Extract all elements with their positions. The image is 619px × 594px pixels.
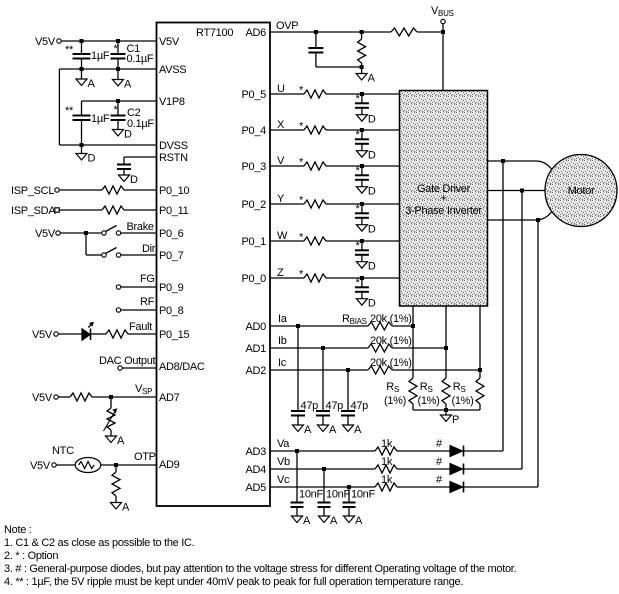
junction AD1 cap — [321, 346, 325, 350]
junction Va cap — [295, 449, 299, 453]
svg-text:**: ** — [65, 105, 74, 117]
svg-text:20k (1%): 20k (1%) — [370, 335, 412, 347]
svg-text:AD4: AD4 — [246, 464, 267, 476]
junction shunt column 3 — [478, 368, 482, 372]
svg-text:P0_3: P0_3 — [242, 161, 267, 173]
wire AD3 row — [270, 450, 375, 452]
wire NTC to pin AD9 — [101, 464, 156, 466]
svg-text:4. ** : 1µF, the 5V ripple mus: 4. ** : 1µF, the 5V ripple must be kept … — [4, 576, 463, 588]
ground D below snubber U — [356, 115, 367, 122]
svg-text:P0_2: P0_2 — [242, 199, 267, 211]
wire AD4 row — [270, 468, 375, 470]
junction OVP cap — [314, 30, 318, 34]
svg-text:P0_0: P0_0 — [242, 273, 267, 285]
svg-text:Ia: Ia — [278, 313, 288, 325]
wire Vc filter cap column — [348, 487, 350, 503]
terminal ISP_SDA — [55, 208, 59, 212]
wire resistor to gate driver (V) — [326, 165, 400, 167]
wire phase output 2 — [488, 190, 546, 192]
svg-text:P0_7: P0_7 — [159, 250, 184, 262]
ground D below snubber Z — [356, 299, 367, 306]
svg-text:Ib: Ib — [278, 335, 287, 347]
wire gate driver to shunt column 1 — [412, 306, 414, 378]
svg-text:A: A — [122, 502, 130, 514]
svg-text:D: D — [124, 129, 132, 141]
svg-text:10nF: 10nF — [326, 489, 350, 501]
resistor RS (1%) #3 — [476, 378, 484, 404]
wire phase output 3 — [488, 212, 552, 220]
svg-text:RS: RS — [386, 381, 399, 394]
junction snubber cap Y — [360, 202, 364, 206]
wire to shunt column 2 — [392, 347, 446, 349]
svg-text:10nF: 10nF — [299, 489, 323, 501]
junction AVSS bus left — [80, 67, 84, 71]
wire LED to resistor — [91, 333, 107, 335]
wire AD0 filter cap column — [297, 326, 299, 411]
svg-text:A: A — [355, 515, 363, 527]
wire to pin P0_7 — [121, 254, 156, 256]
svg-text:AD9: AD9 — [159, 459, 180, 471]
wire resistor to diode Va — [397, 450, 450, 452]
svg-text:P0_11: P0_11 — [159, 205, 189, 217]
svg-text:OVP: OVP — [276, 20, 298, 32]
svg-text:V5V: V5V — [35, 36, 56, 48]
svg-text:AD5: AD5 — [246, 482, 267, 494]
wire ISP_SCL — [59, 189, 102, 191]
junction VSP — [109, 395, 113, 399]
wire ISP_SDA — [59, 209, 102, 211]
terminal V5V (top) — [57, 39, 61, 43]
svg-text:A: A — [88, 78, 96, 90]
svg-text:D: D — [368, 224, 376, 236]
svg-text:A: A — [117, 435, 125, 447]
svg-text:3. # : General-purpose diodes,: 3. # : General-purpose diodes, but pay a… — [4, 563, 517, 575]
wire gate driver to shunt column 3 — [479, 306, 481, 378]
svg-text:P0_8: P0_8 — [159, 305, 184, 317]
junction shunt bus — [444, 408, 448, 412]
wire resistor to gate driver (X) — [326, 129, 400, 131]
junction on V5V rail at C1 — [116, 39, 120, 43]
svg-text:P0_9: P0_9 — [159, 282, 184, 294]
wire AD1 filter cap column — [322, 348, 324, 411]
svg-text:DVSS: DVSS — [159, 140, 188, 152]
svg-text:ISP_SCL: ISP_SCL — [11, 185, 54, 197]
ground A below potentiometer — [106, 436, 117, 443]
svg-text:Fault: Fault — [129, 321, 152, 333]
terminal V5V (Brake) — [56, 231, 60, 235]
resistor RS (1%) #1 — [409, 378, 417, 404]
junction snubber cap X — [360, 128, 364, 132]
junction motor sense 3 — [536, 218, 540, 222]
svg-text:#: # — [436, 456, 443, 468]
svg-text:1µF: 1µF — [91, 113, 110, 125]
ground A below 10nF #1 — [292, 516, 303, 523]
ground D below DVSS bus — [81, 145, 83, 154]
svg-text:A: A — [329, 424, 337, 436]
wire pin to resistor (Z) — [270, 277, 304, 279]
svg-text:V: V — [277, 155, 285, 167]
junction AD0 cap — [296, 324, 300, 328]
ground A below 47p #2 — [318, 425, 329, 432]
svg-text:W: W — [277, 230, 288, 242]
wire to pin P0_11 — [124, 209, 156, 211]
svg-text:VSP: VSP — [135, 383, 152, 396]
svg-text:P: P — [452, 414, 459, 426]
svg-text:P0_5: P0_5 — [242, 89, 267, 101]
svg-text:ISP_SDA: ISP_SDA — [11, 205, 56, 217]
wire pin to resistor (X) — [270, 129, 304, 131]
junction OVP ground — [360, 65, 364, 69]
wire AD5 row — [270, 486, 375, 488]
svg-text:*: * — [299, 269, 304, 281]
wire DVSS bus — [59, 144, 156, 146]
svg-text:*: * — [299, 85, 304, 97]
terminal VBUS — [441, 19, 445, 23]
wire to pin P0_8 — [121, 309, 156, 311]
svg-text:X: X — [277, 119, 285, 131]
capacitor OVP filter — [315, 32, 317, 48]
resistor ISP_SDA series — [102, 206, 124, 214]
svg-text:Vc: Vc — [277, 474, 290, 486]
svg-text:VBUS: VBUS — [431, 5, 454, 18]
resistor Fault series — [106, 330, 128, 338]
wire to pin P0_6 — [121, 232, 156, 234]
wire resistor to gate driver (U) — [326, 93, 400, 95]
ground A below 47p #1 — [293, 425, 304, 432]
terminal V5V (NTC) — [52, 463, 56, 467]
svg-text:A: A — [124, 79, 132, 91]
svg-text:**: ** — [65, 44, 74, 56]
junction V1P8 at C2 — [116, 99, 120, 103]
potentiometer VSP adjust — [110, 397, 112, 408]
wire motor sense 1 vertical — [502, 161, 504, 451]
wire to pin AD7 — [92, 396, 156, 398]
svg-text:Y: Y — [277, 193, 285, 205]
wire diode to motor sense Vb — [462, 468, 522, 470]
svg-text:D: D — [368, 261, 376, 273]
svg-text:*: * — [299, 157, 304, 169]
resistor OVP divider lower — [361, 32, 363, 39]
ground D below snubber X — [356, 151, 367, 158]
wire RBIAS to shunt column 1 — [392, 325, 413, 327]
svg-text:D: D — [88, 153, 96, 165]
svg-text:Motor: Motor — [568, 185, 595, 197]
ground A below 10nF #2 — [319, 516, 330, 523]
wire V5V to resistor — [58, 396, 70, 398]
wire AD0 row — [270, 325, 368, 327]
junction snubber cap W — [360, 239, 364, 243]
svg-text:D: D — [368, 114, 376, 126]
svg-text:V5V: V5V — [32, 392, 53, 404]
svg-text:V5V: V5V — [35, 228, 56, 240]
wire Va filter cap column — [296, 451, 298, 503]
IC U1 RT7100 body — [157, 23, 271, 507]
junction Vc cap — [347, 485, 351, 489]
svg-text:AVSS: AVSS — [159, 64, 186, 76]
wire pin to resistor (W) — [270, 240, 304, 242]
wire resistor to gate driver (W) — [326, 240, 400, 242]
ground A below 47p #3 — [343, 425, 354, 432]
svg-text:RF: RF — [140, 296, 155, 308]
wire VBUS vertical — [442, 24, 444, 91]
svg-text:A: A — [303, 515, 311, 527]
svg-text:*: * — [299, 121, 304, 133]
junction shunt column 2 — [444, 346, 448, 350]
svg-text:RT7100: RT7100 — [196, 27, 233, 39]
svg-text:RSTN: RSTN — [159, 152, 188, 164]
svg-text:P0_6: P0_6 — [159, 228, 184, 240]
svg-text:(1%): (1%) — [417, 395, 439, 407]
junction motor sense 2 — [520, 189, 524, 193]
svg-text:1µF: 1µF — [91, 50, 110, 62]
svg-text:Dir: Dir — [142, 243, 156, 255]
svg-text:20k (1%): 20k (1%) — [370, 357, 412, 369]
junction snubber cap Z — [360, 276, 364, 280]
svg-text:1. C1 & C2 as close as possibl: 1. C1 & C2 as close as possible to the I… — [4, 537, 195, 549]
svg-text:AD2: AD2 — [246, 365, 267, 377]
resistor ISP_SCL series — [102, 186, 124, 194]
ground D below snubber Y — [356, 225, 367, 232]
svg-text:*: * — [299, 195, 304, 207]
resistor RS (1%) #2 — [442, 378, 450, 404]
svg-text:V1P8: V1P8 — [159, 96, 185, 108]
wire AVSS bus — [59, 68, 156, 70]
svg-text:A: A — [304, 424, 312, 436]
wire to pin P0_9 — [121, 286, 156, 288]
svg-text:#: # — [436, 474, 443, 486]
svg-text:0.1µF: 0.1µF — [127, 53, 154, 65]
svg-text:Brake: Brake — [127, 221, 154, 233]
svg-text:V5V: V5V — [30, 460, 51, 472]
junction AD2 cap — [346, 368, 350, 372]
svg-text:3-Phase Inverter: 3-Phase Inverter — [405, 205, 482, 217]
svg-text:P0_1: P0_1 — [242, 236, 267, 248]
wire to pin P0_10 — [124, 189, 156, 191]
capacitor 1uF (**) at V1P8 — [81, 101, 83, 116]
svg-text:A: A — [354, 424, 362, 436]
svg-text:Z: Z — [277, 267, 284, 279]
wire AVSS-DVSS loop — [58, 69, 60, 145]
ground A below 1uF — [81, 69, 83, 79]
svg-text:AD6: AD6 — [246, 27, 267, 39]
terminal RF — [116, 308, 120, 312]
svg-text:Ic: Ic — [278, 357, 287, 369]
ground A below C1 — [117, 69, 119, 80]
svg-text:D: D — [368, 298, 376, 310]
svg-text:10nF: 10nF — [351, 489, 375, 501]
svg-text:V5V: V5V — [32, 329, 53, 341]
svg-text:AD1: AD1 — [246, 343, 267, 355]
LED D1 Fault — [82, 329, 90, 340]
wire motor sense 3 vertical — [537, 220, 539, 487]
svg-text:RS: RS — [420, 381, 433, 394]
svg-text:(1%): (1%) — [384, 395, 406, 407]
junction shunt column 1 — [411, 324, 415, 328]
switch Dir — [102, 253, 106, 257]
wire phase output 1 — [488, 161, 552, 169]
junction OTP — [114, 463, 118, 467]
svg-text:DAC Output: DAC Output — [99, 355, 156, 367]
resistor OVP to VBUS — [391, 28, 417, 36]
wire V5V to switches — [60, 232, 102, 234]
ground P — [445, 410, 447, 415]
wire to shunt column 3 — [392, 369, 480, 371]
switch Brake — [102, 231, 106, 235]
wire gate driver to shunt column 2 — [445, 306, 447, 378]
wire resistor to gate driver (Y) — [326, 203, 400, 205]
wire pin to resistor (V) — [270, 165, 304, 167]
junction motor sense 1 — [501, 159, 505, 163]
svg-text:V5V: V5V — [159, 36, 180, 48]
svg-text:OTP: OTP — [134, 451, 156, 463]
svg-text:*: * — [299, 232, 304, 244]
terminal V5V (Fault) — [54, 332, 58, 336]
wire V5V to NTC — [56, 464, 75, 466]
junction VBUS — [441, 30, 445, 34]
junction DVSS bus — [80, 143, 84, 147]
junction on V5V rail — [80, 39, 84, 43]
diode Vb (#) — [450, 464, 463, 475]
svg-text:Note :: Note : — [4, 524, 32, 536]
svg-text:+: + — [440, 193, 446, 205]
diode Va (#) — [450, 446, 463, 457]
svg-text:P0_15: P0_15 — [159, 329, 189, 341]
ground D below snubber W — [356, 262, 367, 269]
wire shunt common bus — [413, 409, 480, 411]
terminal ISP_SCL — [55, 188, 59, 192]
wire diode to motor sense Vc — [462, 486, 538, 488]
capacitor at RSTN — [117, 164, 131, 166]
wire AD2 row — [270, 369, 368, 371]
wire to Dir switch — [85, 233, 87, 255]
svg-text:FG: FG — [140, 273, 155, 285]
wire V5V to LED — [58, 333, 82, 335]
wire to pin AD8/DAC — [122, 367, 156, 369]
capacitor C2 0.1uF — [117, 101, 119, 116]
junction AVSS bus right — [116, 67, 120, 71]
ground A below 10nF #3 — [344, 516, 355, 523]
resistor NTC divider — [115, 465, 117, 472]
svg-text:D: D — [368, 150, 376, 162]
motor M — [545, 155, 617, 227]
wire resistor to VBUS — [417, 31, 441, 33]
junction snubber cap V — [360, 164, 364, 168]
ground A below OVP divider — [361, 67, 363, 74]
svg-text:D: D — [130, 174, 138, 186]
gate driver block — [400, 91, 488, 307]
diode Vc (#) — [450, 482, 463, 493]
svg-text:#: # — [436, 438, 443, 450]
svg-text:20k (1%): 20k (1%) — [370, 313, 412, 325]
wire pin to resistor (U) — [270, 93, 304, 95]
ground D below snubber V — [356, 187, 367, 194]
svg-text:AD7: AD7 — [159, 392, 180, 404]
wire motor sense 2 vertical — [521, 191, 523, 470]
svg-text:RS: RS — [453, 381, 466, 394]
terminal DAC Output — [118, 366, 122, 370]
ground D below RSTN cap — [119, 175, 130, 182]
svg-text:NTC: NTC — [52, 445, 74, 457]
wire pin to resistor (Y) — [270, 203, 304, 205]
wire OVP row — [270, 31, 391, 33]
svg-text:AD0: AD0 — [246, 321, 267, 333]
resistor VSP series — [70, 393, 92, 401]
wire resistor to diode Vb — [397, 468, 450, 470]
svg-text:P0_4: P0_4 — [242, 125, 267, 137]
wire resistor to gate driver (Z) — [326, 277, 400, 279]
wire Vb filter cap column — [323, 469, 325, 503]
svg-text:P0_10: P0_10 — [159, 185, 189, 197]
ground A below NTC resistor — [111, 503, 122, 510]
wire AD2 filter cap column — [347, 370, 349, 411]
wire diode to motor sense Va — [462, 450, 503, 452]
svg-text:A: A — [368, 73, 376, 85]
junction Vb cap — [322, 467, 326, 471]
ground D below C2 — [113, 130, 124, 137]
svg-text:Vb: Vb — [277, 456, 290, 468]
svg-text:U: U — [277, 83, 285, 95]
wire V1P8 bus — [82, 100, 157, 102]
wire V5V to pin V5V — [61, 40, 156, 42]
junction OVP divider — [360, 30, 364, 34]
wire OVP cap bottom — [316, 66, 362, 68]
junction snubber cap U — [360, 92, 364, 96]
svg-text:A: A — [330, 515, 338, 527]
wire AD1 row — [270, 347, 368, 349]
thermistor NTC — [75, 458, 101, 473]
wire resistor to diode Vc — [397, 486, 450, 488]
svg-text:AD8/DAC: AD8/DAC — [159, 361, 205, 373]
wire to pin P0_15 — [128, 333, 156, 335]
capacitor C1 0.1uF — [117, 41, 119, 54]
svg-text:2. * : Option: 2. * : Option — [4, 550, 58, 562]
terminal V5V (VSP) — [54, 395, 58, 399]
svg-text:(1%): (1%) — [451, 395, 473, 407]
wire RSTN — [124, 156, 156, 158]
svg-text:Va: Va — [277, 438, 290, 450]
svg-text:RBIAS: RBIAS — [342, 313, 367, 326]
capacitor 1uF (**) at V5V — [81, 41, 83, 54]
svg-text:AD3: AD3 — [246, 446, 267, 458]
junction Brake/Dir — [84, 231, 88, 235]
terminal FG — [116, 285, 120, 289]
svg-text:D: D — [368, 186, 376, 198]
